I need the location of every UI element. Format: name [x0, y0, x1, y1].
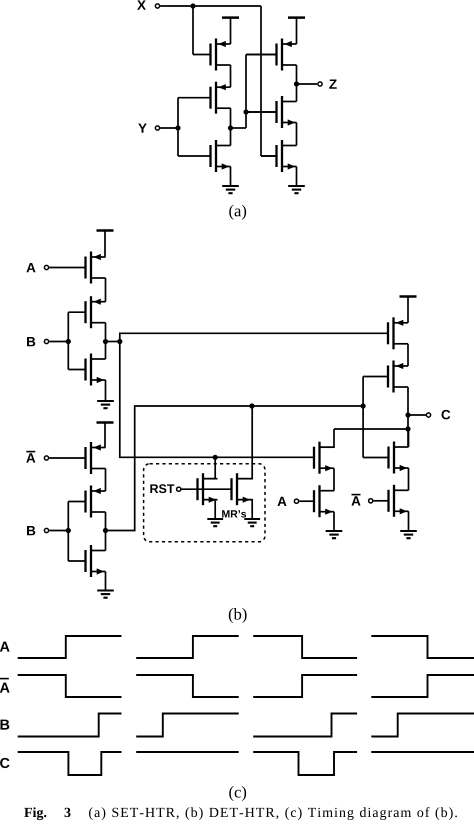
wire M9 drain to node P: [105, 342, 107, 360]
wire bus node P to M17 gate: [120, 342, 314, 458]
label waveform A-bar: [0, 679, 10, 693]
pmos M11 (B): [68, 486, 105, 518]
wire MR1 source to ground: [203, 500, 215, 518]
ground 1: [222, 186, 239, 193]
waveform B group3: [253, 714, 357, 737]
wire MR1 drain to bus P: [203, 457, 215, 478]
ground MR1: [207, 519, 223, 526]
terminal X: [155, 4, 159, 8]
waveform B group2: [136, 714, 239, 737]
terminal A top: [44, 265, 48, 269]
junction node Q: [103, 528, 108, 533]
terminal A-bar right: [369, 499, 373, 503]
wire M15 drain up to node C: [408, 429, 410, 447]
wire B bottom horizontal: [49, 530, 68, 532]
junction node P right: [117, 339, 122, 344]
label Z: [329, 80, 336, 89]
wire node C to terminal: [408, 414, 427, 416]
VDD supply 4: [97, 423, 114, 448]
wire M3 source to ground: [230, 167, 232, 186]
wire RST to gates: [181, 488, 231, 490]
wire bus node Q to M14 gate: [106, 406, 364, 531]
junction B top: [66, 339, 71, 344]
label A input top: [26, 263, 35, 272]
wire M14 drain to node C: [407, 387, 409, 415]
wire M1 drain to M2 source: [230, 65, 232, 87]
wire M8 drain to node P: [105, 323, 107, 342]
label waveform B: [0, 720, 9, 730]
label A-bar input left: [26, 452, 35, 463]
nmos MR1: [198, 473, 218, 505]
terminal RST: [177, 487, 181, 491]
nmos M15: [363, 442, 408, 474]
pmos M10 (A-bar): [49, 442, 105, 474]
wire X horizontal: [160, 5, 261, 7]
wire M17 source to M18 drain: [333, 468, 335, 491]
waveform A group3: [253, 636, 357, 658]
dashed box MR's: [144, 464, 265, 542]
wire M2 drain to node N1: [230, 108, 232, 128]
nmos M5: [246, 96, 297, 128]
wire N1 to M4 gate: [246, 54, 277, 56]
terminal Z: [318, 82, 322, 86]
pmos M7 (A): [49, 252, 105, 284]
junction N1 riser tap: [243, 109, 248, 114]
junction node N1: [228, 125, 233, 130]
label waveform C: [0, 758, 9, 768]
nmos M17: [314, 442, 334, 474]
ground 4: [97, 591, 114, 598]
label (c): [229, 786, 246, 801]
terminal A right: [294, 499, 298, 503]
nmos M18 (A): [299, 485, 334, 517]
wire M7 drain to M8 source: [105, 278, 107, 302]
waveform A group4: [371, 636, 474, 658]
wire M12 drain to node Q: [105, 531, 107, 551]
wire B top horizontal: [49, 341, 68, 343]
wire X to M1 gate: [192, 6, 194, 55]
label RST: [150, 484, 174, 493]
terminal Y: [155, 126, 159, 130]
waveform A-bar group4: [371, 675, 474, 697]
terminal B bottom: [44, 528, 48, 532]
wire X to M6 gate horizontal: [261, 155, 277, 157]
junction Y node: [175, 125, 180, 130]
wire M3 drain to node N1: [230, 128, 232, 146]
waveform A-bar group3: [253, 675, 357, 697]
label Y: [138, 124, 147, 133]
junction node C: [405, 412, 410, 417]
waveform A group1: [18, 636, 122, 658]
terminal A-bar left: [44, 456, 48, 460]
label X: [137, 0, 146, 9]
waveform A-bar group1: [18, 675, 122, 697]
ground MR2: [244, 519, 260, 526]
label (a): [229, 205, 246, 220]
ground 2: [288, 186, 305, 193]
pmos M1 (X): [193, 39, 231, 71]
waveform A-bar group2: [136, 675, 239, 697]
wire M13 drain to M14 source: [407, 344, 409, 366]
pmos M4: [246, 39, 297, 71]
nmos MR2: [232, 473, 252, 505]
wire node P horizontal: [106, 341, 120, 343]
wire Y horizontal: [160, 127, 178, 129]
terminal C: [426, 413, 430, 417]
junction bus Q end: [361, 403, 366, 408]
label A-bar right: [351, 495, 360, 506]
junction B bottom: [66, 528, 71, 533]
wire M16 source to ground: [408, 511, 410, 530]
wire M4 drain to node Z: [296, 65, 298, 84]
wire M9 source to ground: [105, 380, 107, 400]
VDD supply 2: [288, 18, 305, 44]
VDD supply 5: [400, 297, 417, 323]
wire M5 source to M6 drain: [296, 123, 298, 146]
label A right: [277, 497, 286, 506]
wire M11 drain to node Q: [105, 512, 107, 531]
wire node N1 to riser: [231, 127, 247, 129]
nmos M3 (Y): [178, 140, 231, 172]
wire M18 source to ground: [333, 512, 335, 530]
wire N1 riser vertical: [245, 55, 247, 129]
nmos M6 (X): [261, 140, 297, 172]
wire M15 source to M16 drain: [408, 468, 410, 490]
junction bus P tap MR1: [213, 455, 218, 460]
nmos M16 (A-bar): [373, 485, 408, 517]
wire M12 source to ground: [105, 572, 107, 590]
wire M17 drain to node C wire: [320, 429, 335, 447]
label waveform A: [0, 642, 10, 652]
wire N1 to M5 gate: [246, 111, 277, 113]
label MR's: [222, 510, 246, 517]
wire M5 drain to node Z: [296, 84, 298, 102]
label (b): [229, 608, 247, 623]
wire B top vertical gates: [67, 312, 69, 369]
wire node Z to terminal: [297, 83, 318, 85]
wire M10 drain to M11 source: [105, 469, 107, 492]
waveform B group4: [371, 714, 474, 737]
ground 5: [400, 531, 417, 538]
nmos M9 (B): [68, 354, 105, 386]
wire bus node P to M13 gate: [120, 333, 388, 341]
pmos M2 (Y): [178, 82, 231, 114]
wire MR2 drain to bus Q: [237, 406, 252, 479]
waveform C group1: [18, 752, 122, 775]
ground 6: [326, 531, 343, 538]
pmos M13: [388, 317, 408, 349]
ground 3: [97, 401, 114, 408]
wire M6 source to ground: [296, 167, 298, 186]
nmos M12 (B): [68, 545, 105, 577]
wire X vertical to M6 gate: [260, 6, 262, 156]
wire MR2 source to ground: [237, 500, 252, 518]
wire M14 gate riser: [362, 377, 364, 458]
junction node Z: [294, 81, 299, 86]
waveform C group2: [136, 751, 239, 753]
pmos M14: [363, 361, 408, 393]
waveform A group2: [136, 636, 239, 658]
waveform B group1: [18, 714, 122, 737]
junction bus Q tap MR2: [249, 403, 254, 408]
wire Y vertical to M2 M3 gates: [177, 98, 179, 156]
pmos M8 (B): [68, 296, 105, 328]
label B input top: [27, 337, 35, 346]
caption Fig. 3: [24, 807, 457, 820]
VDD supply 1: [222, 18, 239, 44]
waveform C group4: [371, 751, 474, 753]
junction node C lower tap: [405, 426, 410, 431]
wire node C vertical: [407, 415, 409, 447]
wire A-stack drain to node C: [334, 428, 408, 430]
junction node P left: [103, 339, 108, 344]
wire B bottom vertical gates: [67, 502, 69, 562]
label C: [441, 410, 450, 420]
waveform C group3: [253, 752, 357, 775]
terminal B top: [44, 339, 48, 343]
VDD supply 3: [97, 231, 114, 258]
label B input bottom: [27, 526, 35, 535]
junction X node: [190, 3, 195, 8]
